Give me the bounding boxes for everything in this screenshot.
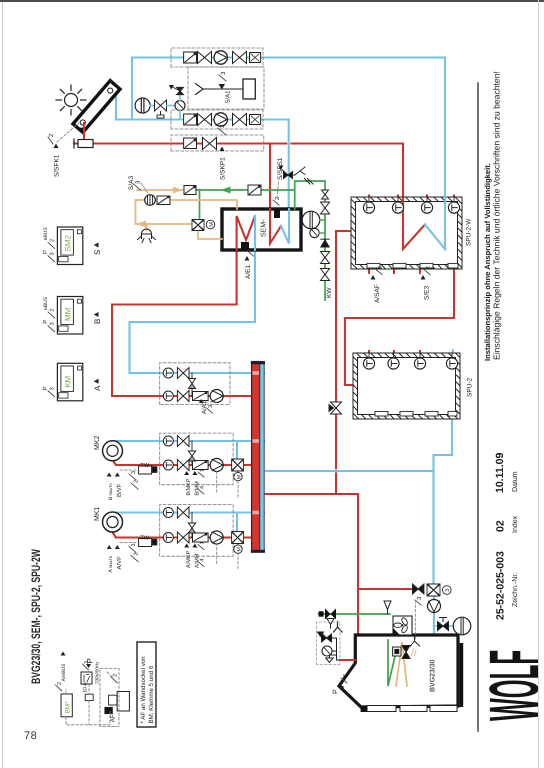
svg-text:4: 4 bbox=[200, 486, 206, 489]
svg-text:S/SFS1: S/SFS1 bbox=[277, 157, 284, 180]
svg-text:TW: TW bbox=[140, 535, 150, 541]
svg-text:MK1: MK1 bbox=[94, 507, 101, 522]
svg-text:BM; Klemme 5 und 6: BM; Klemme 5 und 6 bbox=[148, 665, 155, 723]
svg-text:3: 3 bbox=[220, 71, 227, 75]
svg-text:3: 3 bbox=[50, 387, 56, 390]
svg-text:Zeichn.-Nr.: Zeichn.-Nr. bbox=[511, 573, 519, 607]
svg-text:P: P bbox=[42, 320, 49, 324]
svg-text:02: 02 bbox=[495, 520, 507, 532]
svg-text:S: S bbox=[93, 250, 102, 255]
svg-text:BVG23/30, SEM-, SPU-2, SPU-2W: BVG23/30, SEM-, SPU-2, SPU-2W bbox=[29, 549, 43, 684]
svg-text:KW: KW bbox=[326, 287, 333, 298]
svg-text:3: 3 bbox=[84, 661, 90, 664]
svg-text:3: 3 bbox=[50, 322, 56, 325]
svg-text:eBUS: eBUS bbox=[43, 227, 49, 241]
svg-text:1: 1 bbox=[200, 541, 206, 544]
svg-text:TW: TW bbox=[140, 463, 150, 469]
svg-text:P: P bbox=[42, 386, 49, 390]
svg-text:3: 3 bbox=[219, 124, 226, 128]
svg-text:Index: Index bbox=[511, 515, 519, 533]
svg-text:MK2: MK2 bbox=[94, 436, 101, 451]
svg-text:10 A: 10 A bbox=[83, 682, 89, 693]
svg-text:3: 3 bbox=[342, 674, 349, 678]
svg-text:2: 2 bbox=[48, 133, 55, 137]
svg-text:SPU-2: SPU-2 bbox=[467, 377, 474, 397]
svg-text:* AF an Wandsockel von: * AF an Wandsockel von bbox=[140, 656, 147, 724]
svg-text:A MaxTh: A MaxTh bbox=[108, 556, 114, 573]
svg-text:MM: MM bbox=[64, 307, 73, 321]
svg-text:B: B bbox=[93, 319, 102, 324]
svg-text:S/SKP1: S/SKP1 bbox=[220, 157, 227, 180]
svg-text:2: 2 bbox=[134, 552, 140, 555]
svg-text:P: P bbox=[333, 689, 340, 694]
svg-text:2: 2 bbox=[113, 674, 119, 677]
svg-text:2: 2 bbox=[134, 480, 140, 483]
svg-text:BM*: BM* bbox=[65, 701, 72, 714]
svg-text:M: M bbox=[209, 222, 215, 227]
svg-text:M: M bbox=[236, 547, 242, 551]
svg-text:3: 3 bbox=[135, 180, 142, 184]
svg-text:S/E3: S/E3 bbox=[424, 286, 431, 300]
svg-text:A: A bbox=[93, 385, 102, 391]
svg-text:3: 3 bbox=[50, 252, 56, 255]
svg-text:Einschlägige Regeln der Techni: Einschlägige Regeln der Technik und örtl… bbox=[492, 71, 502, 360]
svg-text:SM2: SM2 bbox=[64, 235, 73, 252]
svg-text:25-52-025-003: 25-52-025-003 bbox=[495, 551, 507, 620]
svg-text:KM: KM bbox=[64, 375, 73, 387]
svg-text:S/A1: S/A1 bbox=[225, 90, 232, 104]
svg-text:3: 3 bbox=[208, 405, 214, 408]
svg-text:S/A3: S/A3 bbox=[128, 176, 135, 190]
svg-text:1: 1 bbox=[200, 469, 206, 472]
svg-text:B/VF: B/VF bbox=[116, 483, 123, 497]
svg-text:AF: AF bbox=[110, 714, 117, 722]
svg-text:SEM-: SEM- bbox=[261, 219, 268, 237]
svg-text:3: 3 bbox=[131, 471, 137, 474]
svg-text:B MaxTh: B MaxTh bbox=[108, 483, 114, 500]
svg-text:2: 2 bbox=[377, 266, 384, 270]
svg-text:A/eBUS: A/eBUS bbox=[61, 663, 67, 681]
svg-text:10.11.09: 10.11.09 bbox=[494, 453, 506, 493]
svg-text:A/E1: A/E1 bbox=[245, 265, 252, 279]
svg-text:SPU-2-W: SPU-2-W bbox=[466, 218, 473, 246]
svg-text:4: 4 bbox=[200, 558, 206, 561]
svg-text:B/MKP: B/MKP bbox=[186, 478, 192, 495]
svg-text:WOLF: WOLF bbox=[475, 650, 544, 721]
svg-text:M: M bbox=[236, 475, 242, 479]
svg-text:2: 2 bbox=[425, 266, 432, 270]
svg-text:S/SFK1: S/SFK1 bbox=[54, 154, 61, 177]
svg-text:230V/50Hz: 230V/50Hz bbox=[95, 661, 100, 684]
svg-text:P: P bbox=[42, 250, 49, 254]
svg-text:A/MKP: A/MKP bbox=[186, 551, 192, 568]
svg-text:2: 2 bbox=[50, 309, 56, 312]
svg-text:2: 2 bbox=[50, 239, 56, 242]
svg-text:eBUS: eBUS bbox=[43, 296, 49, 310]
svg-text:3: 3 bbox=[416, 596, 423, 600]
svg-text:3: 3 bbox=[445, 589, 451, 592]
svg-text:Datum: Datum bbox=[512, 471, 519, 492]
svg-text:2: 2 bbox=[248, 247, 255, 251]
svg-text:A/SAF: A/SAF bbox=[374, 284, 381, 303]
svg-text:BVG23/30: BVG23/30 bbox=[429, 659, 437, 692]
svg-text:2: 2 bbox=[57, 682, 63, 685]
svg-text:3: 3 bbox=[131, 543, 137, 546]
svg-text:A/VF: A/VF bbox=[116, 556, 123, 570]
